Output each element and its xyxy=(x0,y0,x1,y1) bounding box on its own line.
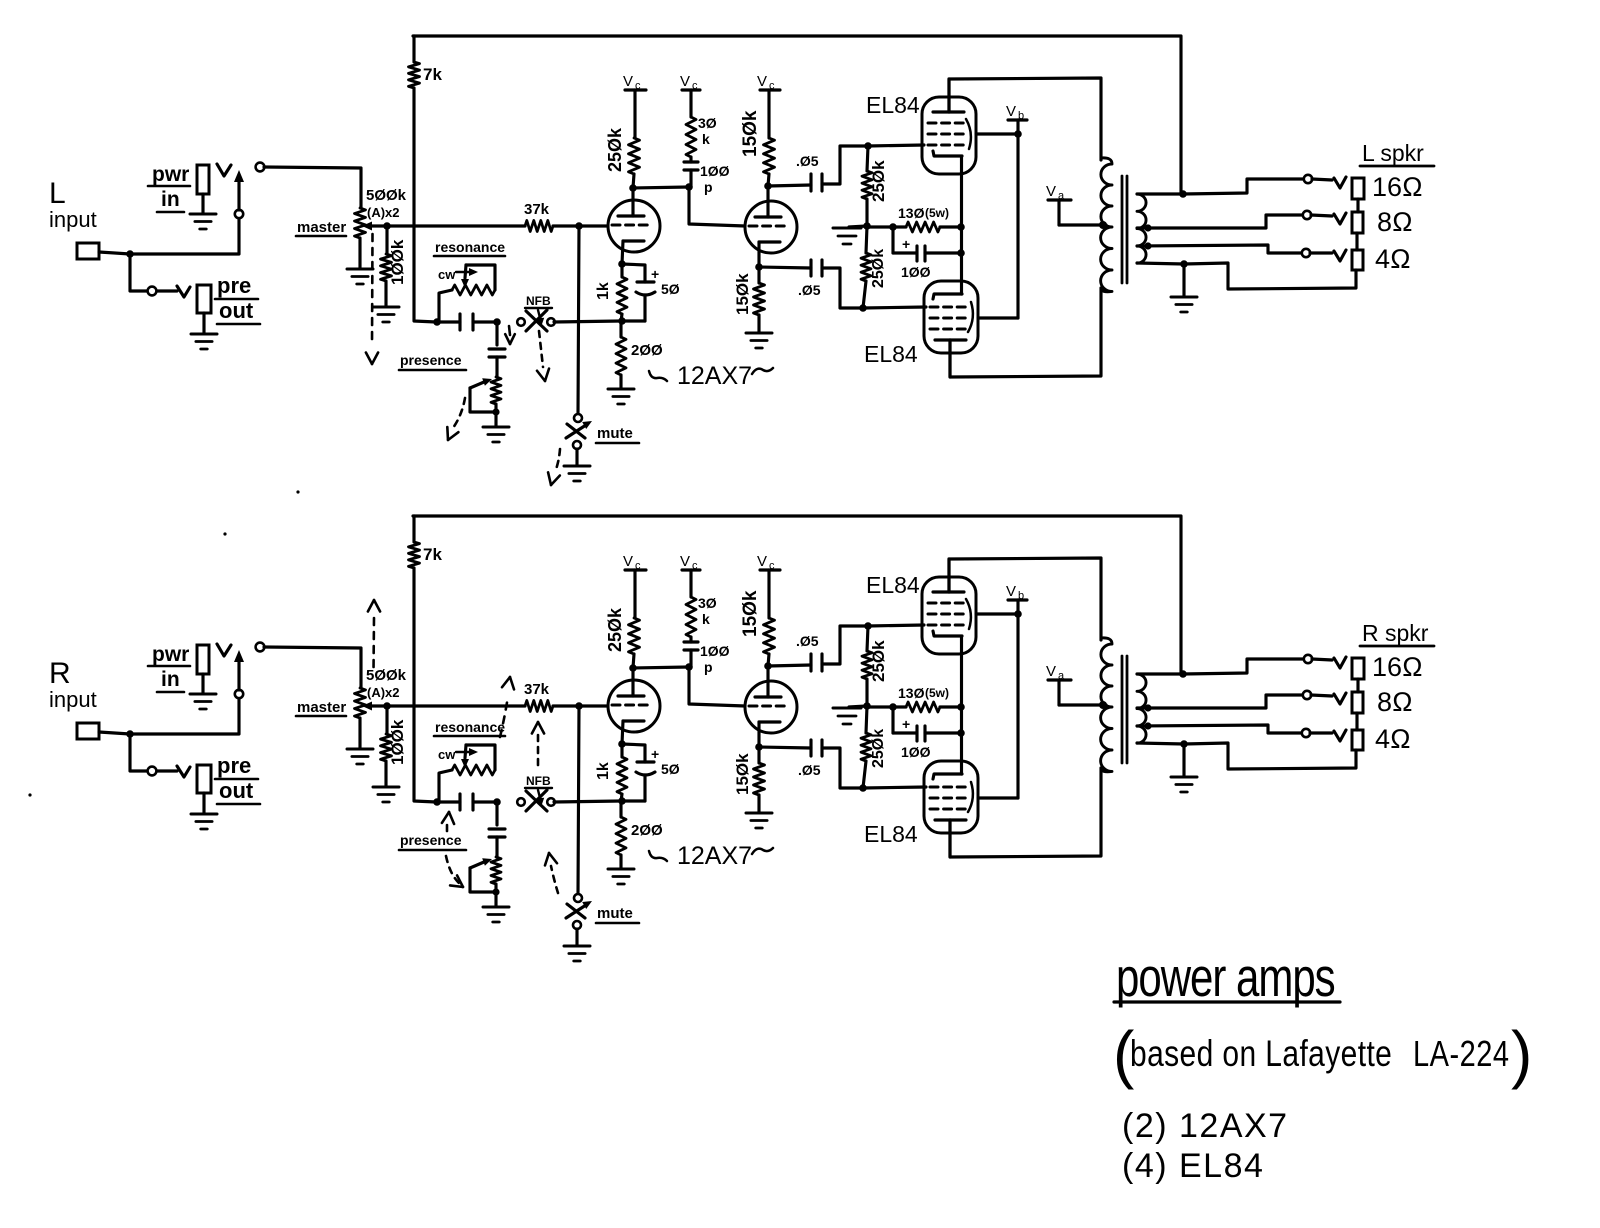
wire cap50 bottom (L) xyxy=(621,319,645,322)
svg-text:8Ω: 8Ω xyxy=(1377,687,1413,717)
OPT secondary winding (R) xyxy=(1137,674,1146,743)
wire 100p to grid2 (L) xyxy=(689,187,745,226)
dashed arrow master (R) xyxy=(372,618,375,672)
svg-text:5Ø: 5Ø xyxy=(661,281,680,297)
svg-text:(5w): (5w) xyxy=(925,206,949,220)
svg-text:EL84: EL84 xyxy=(864,821,918,847)
svg-text:k: k xyxy=(702,611,710,627)
triode2 grid (L) xyxy=(749,225,789,228)
node presence bottom (L) xyxy=(492,408,499,415)
wire EL84 cathode line (R) xyxy=(960,637,963,774)
pre-out jack body (L) xyxy=(197,285,211,313)
dashed arrow master (L) xyxy=(371,234,374,345)
svg-text:3Ø: 3Ø xyxy=(698,115,717,131)
node 130 left (R) xyxy=(889,703,897,711)
potentiometer presence (R) xyxy=(491,857,501,884)
svg-text:1ØØk: 1ØØk xyxy=(388,239,407,285)
node Vb screen1 (L) xyxy=(1014,130,1022,138)
svg-text:4Ω: 4Ω xyxy=(1375,244,1411,274)
wire contact to master pot (L) xyxy=(264,167,361,208)
mute switch blade (R) xyxy=(566,905,586,918)
node tap 4ohm (L) xyxy=(1144,242,1151,249)
node triode2 plate (R) xyxy=(764,662,772,670)
speck 2 xyxy=(223,532,226,535)
wire 100p to grid2 (R) xyxy=(689,667,745,706)
master wiper (L) xyxy=(371,224,387,227)
wire plate1 to 100p node (L) xyxy=(633,187,689,188)
resonance wiper arrow (R) xyxy=(465,745,466,758)
svg-text:mute: mute xyxy=(597,905,633,922)
wire to EL84#2 grid (R) xyxy=(863,787,926,788)
jack body 4ohm (R) xyxy=(1352,730,1363,750)
svg-text:5Ø: 5Ø xyxy=(661,761,680,777)
resistor 100k (L) xyxy=(385,227,388,254)
wire jack link 16-8 (L) xyxy=(1356,199,1359,212)
wire EL84 cathode line (L) xyxy=(960,157,963,294)
wire+tip 8ohm (L) xyxy=(1311,215,1332,216)
svg-text:25Øk: 25Øk xyxy=(870,249,887,288)
svg-text:25Øk: 25Øk xyxy=(605,607,625,652)
jack body 8ohm (R) xyxy=(1352,692,1363,713)
svg-text:12AX7: 12AX7 xyxy=(677,362,752,390)
jack contact 4ohm (L) xyxy=(1302,249,1310,257)
triode1 plate (L) xyxy=(618,214,644,217)
EL84#1 grids (R) xyxy=(928,602,966,605)
pre-out jack tip contact V (L) xyxy=(177,286,190,297)
wire secondary tap 8ohm (L) xyxy=(1137,215,1303,228)
resistor 130 5w cathode bias (R) xyxy=(893,705,906,708)
pwr-in jack tip contact V (L) xyxy=(217,164,231,176)
ground grid divider (R) xyxy=(849,706,867,707)
node grid EL84#1 (R) xyxy=(864,622,872,630)
resistor 250k plate (L) xyxy=(629,138,640,174)
svg-text:25Øk: 25Øk xyxy=(605,127,625,172)
capacitor presence (L) xyxy=(495,322,498,345)
node cathode line top (L) xyxy=(957,223,965,231)
wire+tip 4ohm (L) xyxy=(1310,251,1332,254)
NFB switch contact left (R) xyxy=(517,798,525,806)
resistor 30k (L) xyxy=(686,117,696,157)
wire grid junction to mute (R) xyxy=(578,706,579,894)
svg-text:): ) xyxy=(1511,1018,1532,1090)
OPT secondary winding (L) xyxy=(1137,194,1146,263)
svg-text:power amps: power amps xyxy=(1116,948,1335,1009)
svg-text:(4) EL84: (4) EL84 xyxy=(1122,1147,1264,1185)
node triode1 cathode (R) xyxy=(618,740,626,748)
svg-text:(A)x2: (A)x2 xyxy=(367,205,400,220)
capacitor .05 lower (L) xyxy=(759,267,811,268)
ground grid divider (L) xyxy=(849,226,867,227)
node presence tap (R) xyxy=(493,798,501,806)
svg-text:2ØØ: 2ØØ xyxy=(631,822,663,839)
EL84#2 grids (R) xyxy=(930,786,968,789)
triode2 cathode (R) xyxy=(759,720,780,723)
svg-text:V: V xyxy=(680,73,690,90)
svg-text:1k: 1k xyxy=(595,282,612,300)
svg-text:pwr: pwr xyxy=(152,163,189,186)
svg-text:.Ø5: .Ø5 xyxy=(798,282,821,298)
node secondary ground junction (R) xyxy=(1180,740,1188,748)
EL84#2 screen stub (R) xyxy=(978,796,1018,799)
wire input to pre-out (R) xyxy=(130,734,147,771)
triode1 cathode (L) xyxy=(623,239,644,242)
svg-text:master: master xyxy=(297,699,346,716)
potentiometer master 500k (L) xyxy=(355,208,366,238)
ground pwr-in (L) xyxy=(190,213,216,216)
node cathode NFB junction (L) xyxy=(618,317,626,325)
svg-text:V: V xyxy=(1006,583,1016,600)
svg-text:.Ø5: .Ø5 xyxy=(796,153,819,169)
NFB switch contact right (R) xyxy=(547,798,555,806)
EL84#2 cathode (L) xyxy=(933,294,962,299)
EL84#1 envelope (L) xyxy=(922,97,976,174)
wire secondary tap 4ohm (L) xyxy=(1137,245,1302,253)
svg-text:1k: 1k xyxy=(595,762,612,780)
dashed arrow mute (R) xyxy=(551,866,558,893)
svg-text:pre: pre xyxy=(217,273,251,298)
ground 150k (L) xyxy=(746,332,772,335)
master wiper (R) xyxy=(371,704,387,707)
svg-text:V: V xyxy=(1006,103,1016,120)
wire to EL84#1 grid (R) xyxy=(868,625,924,626)
resistor 130 5w cathode bias (L) xyxy=(893,225,906,228)
resistor 37k (R) xyxy=(525,701,553,712)
svg-text:V: V xyxy=(1046,183,1056,200)
svg-text:12AX7: 12AX7 xyxy=(677,842,752,870)
svg-text:1ØØ: 1ØØ xyxy=(700,163,730,179)
svg-text:15Øk: 15Øk xyxy=(740,590,761,637)
svg-text:V: V xyxy=(680,553,690,570)
wire secondary tap 4ohm (R) xyxy=(1137,725,1302,733)
resistor 150k cathode splitter (R) xyxy=(757,747,760,763)
NFB switch blade (R) xyxy=(526,790,547,811)
node master wiper junction (L) xyxy=(383,222,391,230)
svg-text:V: V xyxy=(623,73,633,90)
EL84#2 plate (R) xyxy=(935,818,966,821)
jack contact 16ohm (R) xyxy=(1304,655,1312,663)
EL84#1 screen stub (R) xyxy=(976,612,1018,615)
ground master pot (R) xyxy=(347,748,373,751)
OPT primary winding (L) xyxy=(1101,158,1112,292)
resistor 150k cathode splitter (L) xyxy=(757,267,760,283)
svg-text:V: V xyxy=(1046,663,1056,680)
node 100p junction (R) xyxy=(685,663,693,671)
wire to pre-out tip (R) xyxy=(157,769,177,772)
svg-text:R: R xyxy=(49,657,71,690)
wire secondary top 16ohm (R) xyxy=(1137,659,1304,674)
OPT core (R) xyxy=(1121,656,1124,763)
output contact circle (R) xyxy=(256,643,265,652)
capacitor .05 upper (R) xyxy=(768,665,811,666)
wire plate1 to 100p node (R) xyxy=(633,667,689,668)
mute contact bottom (R) xyxy=(573,921,581,929)
pwr-in switch contact (L) xyxy=(235,210,243,218)
node grid EL84#2 (L) xyxy=(859,304,867,312)
capacitor 100 cathode (L) xyxy=(891,227,894,253)
wire NFB switch to cathode node (R) xyxy=(554,801,621,802)
wire NFB vertical to tone network (R) xyxy=(414,568,460,802)
svg-text:13Ø: 13Ø xyxy=(898,685,925,701)
EL84#1 envelope (R) xyxy=(922,577,976,654)
wire EL84#2 plate to OPT (L) xyxy=(950,288,1101,377)
node NFB tap (L) xyxy=(1179,190,1187,198)
svg-text:3Ø: 3Ø xyxy=(698,595,717,611)
svg-text:.Ø5: .Ø5 xyxy=(796,633,819,649)
wire to EL84#1 grid (L) xyxy=(868,145,924,146)
resonance wiper arrow (L) xyxy=(465,265,466,278)
wire jack link 16-8 (R) xyxy=(1356,679,1359,692)
output contact circle (L) xyxy=(256,163,265,172)
triode 12AX7b envelope (R) xyxy=(745,681,797,733)
svg-text:15Øk: 15Øk xyxy=(740,110,761,157)
wire 37k to grid (R) xyxy=(553,704,608,707)
svg-text:(A)x2: (A)x2 xyxy=(367,685,400,700)
EL84#1 grids (L) xyxy=(928,122,966,125)
node grid/mute junction (R) xyxy=(575,702,583,710)
triode1 grid (L) xyxy=(612,224,652,227)
EL84#2 beam bracket (R) xyxy=(968,782,973,812)
wire input to pwr-in switch (R) xyxy=(130,698,239,734)
svg-text:25Øk: 25Øk xyxy=(869,160,888,202)
wire secondary tap 8ohm (R) xyxy=(1137,695,1303,708)
svg-text:R spkr: R spkr xyxy=(1362,620,1429,646)
svg-text:(: ( xyxy=(1113,1018,1134,1090)
wire EL84#1 plate to OPT (R) xyxy=(949,558,1101,640)
svg-text:LA-224: LA-224 xyxy=(1413,1033,1509,1074)
potentiometer resonance (R) xyxy=(452,765,495,775)
node cathode line bottom (R) xyxy=(957,729,965,737)
resistor 100k (R) xyxy=(385,707,388,734)
ground mute (L) xyxy=(575,449,578,465)
svg-text:V: V xyxy=(623,553,633,570)
svg-text:7k: 7k xyxy=(423,65,442,84)
wire wiper to 37k (L) xyxy=(387,224,525,227)
node triode1 plate (L) xyxy=(629,184,637,192)
svg-text:input: input xyxy=(49,687,97,712)
ground pwr-in (R) xyxy=(190,693,216,696)
svg-text:resonance: resonance xyxy=(435,719,505,735)
svg-text:5ØØk: 5ØØk xyxy=(366,667,407,684)
dashed arc presence (R) xyxy=(446,856,460,884)
node presence tap (L) xyxy=(493,318,501,326)
wire+tip 4ohm (R) xyxy=(1310,731,1332,734)
capacitor 100p (R) xyxy=(684,640,698,643)
EL84#1 beam bracket (R) xyxy=(966,599,971,629)
input jack pad (R) xyxy=(77,723,99,739)
OPT core (L) xyxy=(1121,176,1124,283)
arrow switch to jack tip (R) xyxy=(237,660,240,690)
jack contact 8ohm (L) xyxy=(1303,211,1311,219)
node grid EL84#1 (L) xyxy=(864,142,872,150)
svg-text:15Øk: 15Øk xyxy=(733,753,752,795)
node grid/mute junction (L) xyxy=(575,222,583,230)
pre-out jack body (R) xyxy=(197,765,211,793)
capacitor presence (R) xyxy=(495,802,498,825)
ground presence (R) xyxy=(494,892,497,906)
svg-text:L spkr: L spkr xyxy=(1362,140,1424,166)
wire divider to 130 (L) xyxy=(867,225,893,228)
node resonance-cap junction (L) xyxy=(433,318,441,326)
ground pre-out (R) xyxy=(191,813,217,816)
node master wiper junction (R) xyxy=(383,702,391,710)
triode1 grid (R) xyxy=(612,704,652,707)
title power amps xyxy=(1116,948,1335,1009)
capacitor .05 upper (L) xyxy=(768,185,811,186)
node 130 left (L) xyxy=(889,223,897,231)
arrow NFB label (R) xyxy=(538,790,540,798)
potentiometer resonance (L) xyxy=(452,285,495,295)
dashed arrow presence (L) xyxy=(453,398,465,428)
ground 100k (L) xyxy=(373,306,399,309)
svg-text:1ØØ: 1ØØ xyxy=(901,744,931,760)
EL84#1 plate (R) xyxy=(933,590,964,593)
node Vb screen1 (R) xyxy=(1014,610,1022,618)
wire jack link 8-4 (L) xyxy=(1355,233,1358,250)
NFB switch blade (L) xyxy=(526,310,547,331)
capacitor 100 cathode (R) xyxy=(891,707,894,733)
EL84#2 beam bracket (L) xyxy=(968,302,973,332)
resistor 30k (R) xyxy=(686,597,696,637)
ground pre-out (L) xyxy=(191,333,217,336)
svg-text:+: + xyxy=(902,716,910,732)
svg-text:p: p xyxy=(704,659,713,675)
svg-text:1ØØk: 1ØØk xyxy=(388,719,407,765)
resistor 37k (L) xyxy=(525,221,553,232)
dashed arrow NFB (L) xyxy=(539,331,543,367)
triode1 plate (R) xyxy=(618,694,644,697)
wire 37k to grid (L) xyxy=(553,224,608,227)
node OPT primary CT (L) xyxy=(1099,221,1107,229)
dashed arrow presence up (R) xyxy=(446,825,449,835)
node presence bottom (R) xyxy=(492,888,499,895)
svg-text:resonance: resonance xyxy=(435,239,505,255)
input jack pad (L) xyxy=(77,243,99,259)
node cathode NFB junction (R) xyxy=(618,797,626,805)
triode2 plate (R) xyxy=(755,695,781,698)
subtitle based on Lafayette LA-224 xyxy=(1130,1033,1509,1075)
EL84#2 plate (L) xyxy=(935,338,966,341)
capacitor resonance (L) xyxy=(458,314,461,330)
EL84#2 envelope (L) xyxy=(924,281,978,353)
svg-text:4Ω: 4Ω xyxy=(1375,724,1411,754)
mute contact bottom (L) xyxy=(573,441,581,449)
svg-text:mute: mute xyxy=(597,425,633,442)
svg-text:5ØØk: 5ØØk xyxy=(366,187,407,204)
node cathode line bottom (L) xyxy=(957,249,965,257)
svg-text:pwr: pwr xyxy=(152,643,189,666)
potentiometer master 500k (R) xyxy=(355,688,366,718)
svg-text:+: + xyxy=(651,266,659,282)
wire to pre-out tip (L) xyxy=(157,289,177,292)
arrow NFB label (L) xyxy=(538,310,540,318)
node tap 8ohm (R) xyxy=(1144,704,1151,711)
wire+tip 16ohm (L) xyxy=(1312,179,1332,180)
node triode1 plate (R) xyxy=(629,664,637,672)
node input junction (L) xyxy=(126,250,134,258)
ground presence (L) xyxy=(494,412,497,426)
triode1 cathode (R) xyxy=(623,719,644,722)
pre-out contact circle (R) xyxy=(148,767,157,776)
ground secondary (R) xyxy=(1182,744,1185,776)
svg-text:cw: cw xyxy=(438,747,456,762)
resistor 150k plate splitter (L) xyxy=(764,138,775,174)
jack body 16ohm (L) xyxy=(1352,178,1364,199)
dashed arrow near 37k (R) xyxy=(500,696,508,737)
svg-text:8Ω: 8Ω xyxy=(1377,207,1413,237)
svg-text:L: L xyxy=(49,177,66,210)
EL84#1 cathode (R) xyxy=(933,631,962,636)
resistor 1k (L) xyxy=(620,264,623,277)
node OPT primary CT (R) xyxy=(1099,701,1107,709)
presence wiper arrow (R) xyxy=(470,862,484,868)
svg-text:in: in xyxy=(161,668,180,691)
EL84#2 grids (L) xyxy=(930,306,968,309)
svg-text:NFB: NFB xyxy=(526,294,551,308)
NFB switch contact left (L) xyxy=(517,318,525,326)
wire NFB top rail (L) xyxy=(413,36,1181,194)
wire to EL84#2 grid (L) xyxy=(863,307,926,308)
wire jack link 8-4 (R) xyxy=(1355,713,1358,730)
svg-text:presence: presence xyxy=(400,352,462,368)
node tap 4ohm (R) xyxy=(1144,722,1151,729)
resistor 250k plate (R) xyxy=(629,618,640,654)
capacitor 100p (L) xyxy=(684,160,698,163)
svg-text:presence: presence xyxy=(400,832,462,848)
pwr-in jack body (L) xyxy=(197,165,209,194)
wire divider to 130 (R) xyxy=(867,705,893,708)
svg-text:master: master xyxy=(297,219,346,236)
resistor 250k EL84#2 grid (R) xyxy=(866,706,867,733)
node secondary ground junction (L) xyxy=(1180,260,1188,268)
wire+tip 8ohm (R) xyxy=(1311,695,1332,696)
pwr-in jack tip contact V (R) xyxy=(217,644,231,656)
triode2 plate (L) xyxy=(755,215,781,218)
resistor 250k EL84#1 grid (L) xyxy=(867,146,868,171)
node cathode line top (R) xyxy=(957,703,965,711)
svg-text:input: input xyxy=(49,207,97,232)
node NFB tap (R) xyxy=(1179,670,1187,678)
node triode1 cathode (L) xyxy=(618,260,626,268)
pwr-in switch contact (R) xyxy=(235,690,243,698)
ground 200 (R) xyxy=(608,868,634,871)
resistor 150k plate splitter (R) xyxy=(764,618,775,654)
triode2 cathode (L) xyxy=(759,240,780,243)
jack contact 16ohm (L) xyxy=(1304,175,1312,183)
triode2 grid (R) xyxy=(749,705,789,708)
ground 100k (R) xyxy=(373,786,399,789)
mute contact top (L) xyxy=(574,414,582,422)
svg-text:V: V xyxy=(757,553,767,570)
svg-text:in: in xyxy=(161,188,180,211)
svg-text:(5w): (5w) xyxy=(925,686,949,700)
node triode2 cathode (R) xyxy=(755,743,763,751)
EL84#1 plate (L) xyxy=(933,110,964,113)
node resonance-cap junction (R) xyxy=(433,798,441,806)
svg-text:EL84: EL84 xyxy=(866,572,920,598)
svg-text:13Ø: 13Ø xyxy=(898,205,925,221)
capacitor .05 lower (R) xyxy=(759,747,811,748)
capacitor 50 bypass (R) xyxy=(622,744,645,762)
svg-text:k: k xyxy=(702,131,710,147)
wire wiper to 37k (R) xyxy=(387,704,525,707)
speck 1 xyxy=(296,490,299,493)
triode 12AX7a envelope (L) xyxy=(608,200,660,252)
resistor 1k (R) xyxy=(620,744,623,757)
jack contact 8ohm (R) xyxy=(1303,691,1311,699)
capacitor 50 bypass (L) xyxy=(622,264,645,282)
wire contact to master pot (R) xyxy=(264,647,361,688)
wire cap50 bottom (R) xyxy=(621,799,645,802)
